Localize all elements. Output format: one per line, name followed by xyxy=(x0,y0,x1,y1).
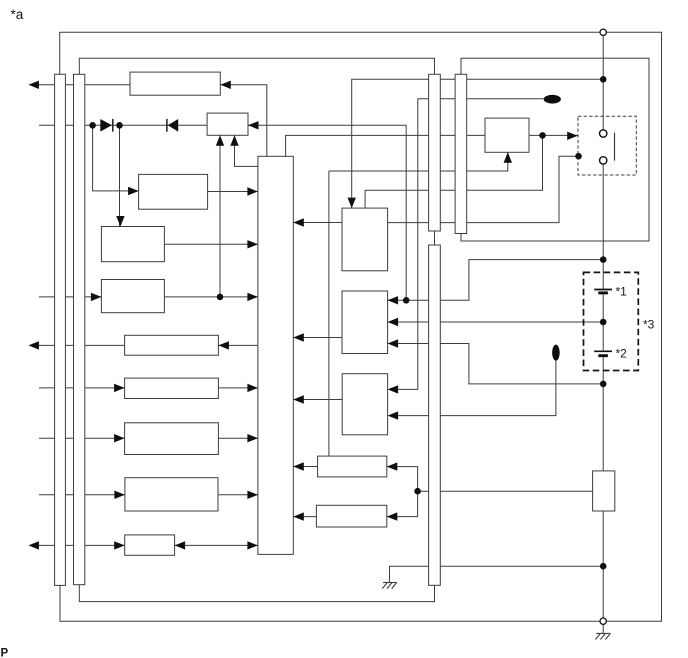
wire box B2 right feed, corner x=406.2 down to dot y=300.3 xyxy=(248,125,406,300)
wire main vertical segment battery2 to bottom terminal xyxy=(602,357,604,618)
arrow right into box B10 left edge xyxy=(114,541,125,549)
box B8 row8 xyxy=(125,423,219,455)
wire sb1 output to tall box right edge y=466.5 xyxy=(293,466,317,468)
wire main vertical segment switch lower contact to battery1 xyxy=(602,164,604,288)
bus bar J2 left inner xyxy=(74,74,85,584)
box B5 row5 xyxy=(101,280,164,313)
junction dot row2 b xyxy=(116,122,123,129)
junction dot row5 xyxy=(217,294,224,301)
arrow left far-left row1 xyxy=(28,81,39,89)
arrow left into tall box right edge from sb1 xyxy=(293,462,304,470)
wire row5 left stub into box B5 xyxy=(39,296,101,298)
arrow left into sb2 right edge xyxy=(387,512,398,520)
arrow right into tall box row9 xyxy=(247,491,258,499)
ground G1 bottom-center xyxy=(382,583,396,589)
arrow left into tall box right edge from sb2 xyxy=(293,512,304,520)
bus bar J1 left outer xyxy=(55,74,66,585)
diode D1 pointing right on row2 xyxy=(100,119,112,132)
box stack3 xyxy=(342,374,387,435)
wire row8 left stub into box B8 xyxy=(39,437,125,439)
wire ground2 stem below bottom terminal xyxy=(602,624,604,633)
arrow up into box B2 bottom b xyxy=(230,135,238,146)
arrow down into stack1 top xyxy=(348,198,356,209)
bus bar J5 right upper xyxy=(455,74,467,233)
box B2 row2 xyxy=(207,113,248,135)
switch S1 blade bar xyxy=(614,133,616,161)
wire row9 output box B9 to tall box xyxy=(218,494,258,496)
svg-text:*1: *1 xyxy=(616,285,628,299)
wire from stack3 right arrow up x=417.8 and right y=98.8 to top connector ellipse xyxy=(389,99,544,390)
box stack2 xyxy=(342,291,388,354)
battery BT1 plates xyxy=(594,289,612,291)
tall box U0 center xyxy=(258,156,293,554)
wire stack2 input1 y=300.3 via corner x=468.9 up to rail y=259.6 to dot on main vertical xyxy=(388,260,604,301)
wire vertical x=220 from row5 dot up to box B2 bottom xyxy=(219,135,221,297)
wire ground1 riser and rail y=566.2 to dot on main vertical xyxy=(390,566,604,582)
box B1 row1 xyxy=(130,72,220,95)
wire stack1 top arrow feed from rail y=79.3 ending at dot on main vertical xyxy=(352,79,604,208)
arrow right into box B3 left edge xyxy=(128,187,139,195)
wire feeds into sb1 and sb2 right edges from vertical x=417.6 xyxy=(387,467,418,517)
wire main vertical segment battery1 to battery2 xyxy=(602,294,604,350)
wire into control box U1 left edge y=135.4 from tall box top riser x=285.6 xyxy=(286,135,485,156)
arrow left far-left row10 xyxy=(28,541,39,549)
arrow right into box B7 left edge xyxy=(114,384,125,392)
wire branch from dot at x=92.6 down and right into box B3 xyxy=(93,125,139,191)
battery BT2 plates xyxy=(594,350,612,352)
wire row10 bidirectional line box B10 to tall box xyxy=(175,544,258,546)
bus bar J3 center upper xyxy=(429,74,441,231)
arrow left far-left row6 xyxy=(28,341,39,349)
junction dot main vertical y=259.6 xyxy=(600,256,607,263)
wire row9 left stub into box B9 xyxy=(39,494,125,496)
svg-text:*a: *a xyxy=(11,7,24,22)
junction dot sb feed column xyxy=(414,488,421,495)
arrow left into tall box right edge from stack3 xyxy=(293,395,304,403)
wire stack2 output to tall box right edge y=337.5 xyxy=(293,337,342,339)
wire stack1 right edge feed from switch contact dot xyxy=(388,156,579,222)
arrow up into box B2 bottom a xyxy=(216,135,224,146)
connector ellipse right-mid (filled, vertical) xyxy=(552,345,560,361)
junction dot main vertical y=383.9 xyxy=(600,381,607,388)
ground G2 below bottom terminal xyxy=(595,633,610,639)
wire row3 output box B3 to tall box xyxy=(208,191,258,193)
junction dot row2 a xyxy=(89,122,96,129)
junction dot main vertical y=566.2 xyxy=(600,563,607,570)
wire branch from dot at x=119.5 down into box B4 top xyxy=(119,125,121,226)
wire stack1 second top feed via y=190.2 up to dot x=542.5 xyxy=(365,135,542,208)
box B9 row9 xyxy=(125,478,218,511)
arrow right into switch dashed box xyxy=(567,132,578,140)
svg-text:*3: *3 xyxy=(643,318,655,332)
wire loop2 bottom: bus2 bottom stub, rail y=601.6, up to bus3b bottom xyxy=(79,585,434,602)
arrow right into tall box row10 xyxy=(247,541,258,549)
arrow right into box B9 left edge xyxy=(114,491,125,499)
arrow left into stack2 input1 xyxy=(388,296,399,304)
box B6 row6 xyxy=(125,335,219,355)
box sb1 xyxy=(318,456,387,477)
wire row8 output box B8 to tall box xyxy=(218,437,258,439)
box U1 control top-right xyxy=(485,118,529,152)
wire row2 diode line y=125 from left stub to box B2 xyxy=(39,124,207,126)
box B7 row7 xyxy=(125,378,219,398)
wire box B1 right feed from tall box top via corner x=266.8 xyxy=(220,85,266,157)
arrow left into stack3 input1 xyxy=(388,385,399,393)
arrow left into stack2 input2 xyxy=(388,318,399,326)
switch S1 dashed box xyxy=(578,116,636,175)
wire resistor tap from dot x=417.6 y=490.7 xyxy=(418,490,593,492)
wire row7 output box B7 to tall box xyxy=(218,387,258,389)
arrow left into box B6 right edge xyxy=(218,341,229,349)
switch S1 lower contact xyxy=(600,157,607,164)
terminal circle bottom xyxy=(600,618,606,624)
wire L from tall box left edge up into box B2 bottom xyxy=(235,135,258,166)
wire row5 output box B5 to tall box with junction at x=220 xyxy=(164,296,258,298)
junction dot stack2 input1 xyxy=(403,297,410,304)
wire stack3 output to tall box right edge y=399.5 xyxy=(293,399,342,401)
box stack1 xyxy=(342,208,388,271)
wire row6 right line tall box to box B6 xyxy=(218,344,258,346)
arrow left into box B10 right edge xyxy=(175,541,186,549)
wire main vertical segment circle to switch upper contact xyxy=(602,36,604,130)
arrow right into tall box row3 xyxy=(247,187,258,195)
wire row6 left line box B6 to far-left arrow xyxy=(30,344,125,346)
wire stub between bus3 and bus3b xyxy=(434,231,436,245)
svg-text:P: P xyxy=(1,648,9,658)
wire row7 left stub into box B7 xyxy=(39,387,125,389)
switch S1 upper contact xyxy=(600,130,607,137)
terminal circle top xyxy=(600,29,606,35)
node A row1 wire: far-left arrow line y=84.8 to box B1 xyxy=(30,84,130,86)
box B3 row3 xyxy=(139,174,208,209)
arrow right into box B5 left edge xyxy=(91,293,102,301)
wire sb2 output to tall box right edge y=516 xyxy=(293,516,316,518)
svg-text:*2: *2 xyxy=(616,347,628,361)
wire row10 left line box B10 to far-left arrow xyxy=(30,544,125,546)
battery pack dashed box *3 xyxy=(584,272,639,370)
bus bar J4 center lower xyxy=(429,245,441,585)
arrow left into stack3 input2 xyxy=(388,411,399,419)
arrow left into stack2 input3 xyxy=(388,339,399,347)
arrow right into tall box row8 xyxy=(247,434,258,442)
resistor R1 on main vertical xyxy=(593,471,615,511)
arrow up into control box U1 bottom xyxy=(504,152,512,163)
box sb2 xyxy=(316,505,386,527)
junction dot battery mid tap xyxy=(600,319,607,326)
wire row4 output box B4 to tall box xyxy=(164,243,258,245)
arrow left into tall box right edge from stack2 xyxy=(293,333,304,341)
box B10 row10 xyxy=(125,535,175,555)
wire loop2 top: bus2 top feed, rail y=58, down to bus3 top xyxy=(79,58,434,74)
arrow right into tall box row5 xyxy=(247,293,258,301)
arrow down into box B4 top xyxy=(116,216,124,227)
wire loop1 outer: bus1 top feed, top rail y=32, right rail x=661.5, bottom rail y=621, bus1 bottom stub xyxy=(60,32,662,621)
connector ellipse top (filled) xyxy=(544,95,561,104)
wire vertical x=328.9 down to sb1 top xyxy=(328,171,330,456)
arrow right into tall box row7 xyxy=(247,384,258,392)
diode D2 pointing left on row2 xyxy=(166,119,168,132)
arrow left into tall box right edge from stack1 xyxy=(293,218,304,226)
arrow right into tall box row4 xyxy=(247,240,258,248)
arrow left into box B2 right edge xyxy=(248,121,259,129)
junction dot switch lower contact feed xyxy=(575,153,582,160)
wire stack3 input2 y=415.6 from bottom connector ellipse riser x=555.9 xyxy=(389,353,556,416)
arrow right into box B8 left edge xyxy=(114,434,125,442)
node relay box: inner rectangle top-right xyxy=(461,58,649,241)
junction dot control box output xyxy=(539,132,546,139)
wire stack2 input3 y=343.5 via corner x=468.9 down to rail y=383.9 to dot on main vertical xyxy=(388,344,604,384)
junction dot main vertical y=79.3 xyxy=(600,76,607,83)
wire stack1 output to tall box right edge y=222.5 xyxy=(293,222,342,224)
box B4 row4 xyxy=(101,227,164,262)
wire into control box U1 bottom arrow from line y=171 starting at x=328.9 xyxy=(329,152,508,171)
wire control box U1 output y=135.4 to switch dashed box xyxy=(529,134,578,136)
arrow left into sb1 right edge xyxy=(387,462,398,470)
wire stack2 input2 y=322 from battery mid junction xyxy=(388,321,604,323)
arrow left into box B1 right edge xyxy=(220,81,231,89)
